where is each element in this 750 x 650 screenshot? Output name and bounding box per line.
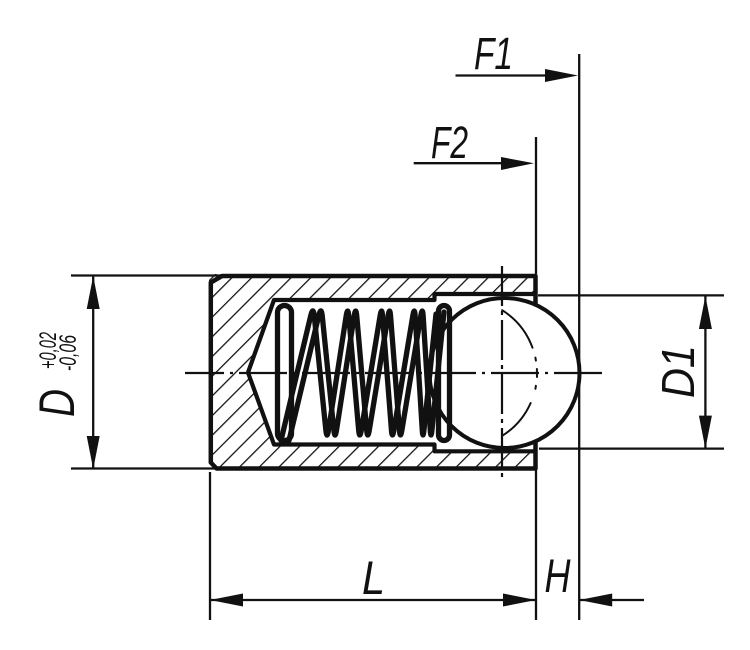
svg-text:H: H — [545, 549, 571, 602]
svg-text:L: L — [362, 551, 385, 604]
svg-text:F2: F2 — [431, 117, 468, 168]
svg-text:D: D — [29, 389, 85, 417]
svg-text:-0,06: -0,06 — [55, 335, 82, 371]
svg-text:D1: D1 — [652, 345, 704, 398]
svg-text:F1: F1 — [474, 28, 513, 79]
